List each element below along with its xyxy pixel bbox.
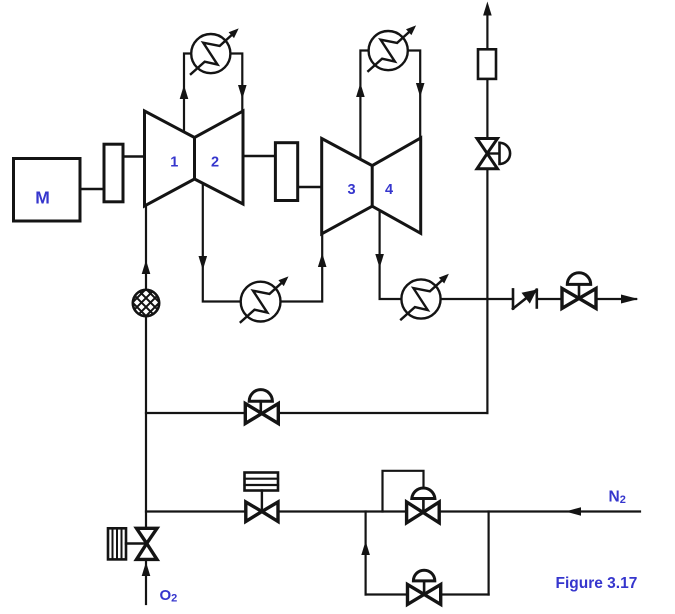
intercooler HX3 (241, 276, 289, 322)
vent valve with D actuator (477, 139, 510, 169)
arrow right on product line (621, 295, 639, 304)
wire: stage 4 discharge down to aftercooler HX4 (380, 207, 402, 299)
N2 make-up valve with piston actuator (245, 473, 279, 522)
cooler HX1 (191, 28, 239, 74)
arrow left on N2 header (565, 507, 581, 516)
arrow up on HX2 inlet riser (356, 83, 365, 97)
wire: regulator sensing loop (383, 471, 424, 512)
wire: check valve to product control valve (537, 298, 562, 300)
check valve (513, 289, 537, 308)
N2 self-acting regulator valve (407, 488, 440, 523)
svg-text:Figure 3.17: Figure 3.17 (556, 575, 638, 592)
motor M (14, 159, 81, 222)
wire: product line with arrow to battery limit (596, 298, 636, 300)
wire: cooler HX2 outlet down to stage 4 inlet (408, 51, 420, 140)
wire: stage 1 discharge riser to cooler HX1 (184, 54, 192, 133)
arrow down on stage 4 discharge (375, 254, 384, 268)
arrow up on N2 bypass downcomer (361, 541, 370, 555)
suction filter (crosshatched) (120, 263, 172, 358)
aftercooler HX4 (401, 274, 449, 320)
arrow up on suction line above filter (142, 260, 151, 274)
wire: cooler HX1 outlet down to stage 2 inlet (231, 54, 243, 113)
product control valve with diaphragm (562, 273, 596, 309)
wire: stage 3 discharge riser to cooler HX2 (360, 51, 369, 161)
wire: suction line from O2 valve up through filter to stage 1 (145, 206, 147, 529)
arrow up on O2 inlet (142, 562, 151, 576)
wire: O2 suction inlet at bottom (145, 560, 147, 604)
wire: vent column (orifice to vent valve) (486, 79, 488, 139)
svg-text:M: M (35, 188, 50, 208)
wire: HX3 outlet up to stage 3 inlet (281, 233, 322, 302)
wire: HX4 outlet to check valve (441, 298, 513, 300)
wire: N2 bypass left downcomer (365, 512, 367, 595)
recycle control valve with diaphragm (245, 390, 278, 424)
wire: N2 bypass bottom run (366, 593, 489, 595)
svg-text:O2: O2 (160, 587, 178, 605)
svg-text:N2: N2 (609, 489, 626, 507)
cooler HX2 (368, 25, 416, 71)
wire: recycle line back to suction (146, 412, 487, 414)
restriction orifice / silencer on vent column (478, 49, 496, 79)
compressor stages 3-4 (322, 138, 421, 234)
O2 inlet valve with hand actuator (108, 528, 157, 559)
svg-text:3: 3 (347, 182, 355, 198)
coupling / gearbox 1 (104, 144, 123, 202)
arrow up on HX1 inlet riser (180, 85, 189, 99)
wire: N2 bypass right riser (488, 512, 490, 595)
svg-text:4: 4 (385, 182, 393, 198)
wire: stage 2 discharge down to intercooler HX3 (203, 182, 241, 302)
arrow down on HX2 outlet riser (416, 83, 425, 97)
coupling / gearbox 2 (275, 143, 297, 201)
arrow up on stage 3 suction riser (318, 253, 327, 267)
svg-text:1: 1 (170, 155, 178, 171)
arrow up at top of vent column (483, 2, 492, 16)
wire: coupling 1 to compressor stage 1 (121, 155, 146, 157)
N2 bypass valve with diaphragm (408, 570, 441, 604)
wire: coupling 2 to compressor stage 3 (296, 186, 322, 188)
compressor stages 1-2 (145, 111, 244, 206)
wire: motor shaft to coupling 1 (80, 188, 106, 190)
arrow down on HX1 outlet riser (238, 85, 247, 99)
arrow down on stage 2 discharge (199, 256, 208, 270)
svg-text:2: 2 (211, 155, 219, 171)
wire: compressor stage 2 to coupling 2 (243, 155, 277, 157)
wire: N2 header from right edge (146, 510, 640, 512)
wire: vent column (top arrow to orifice) (486, 13, 488, 50)
wire: vent column (vent valve down to recycle corner) (486, 169, 488, 413)
